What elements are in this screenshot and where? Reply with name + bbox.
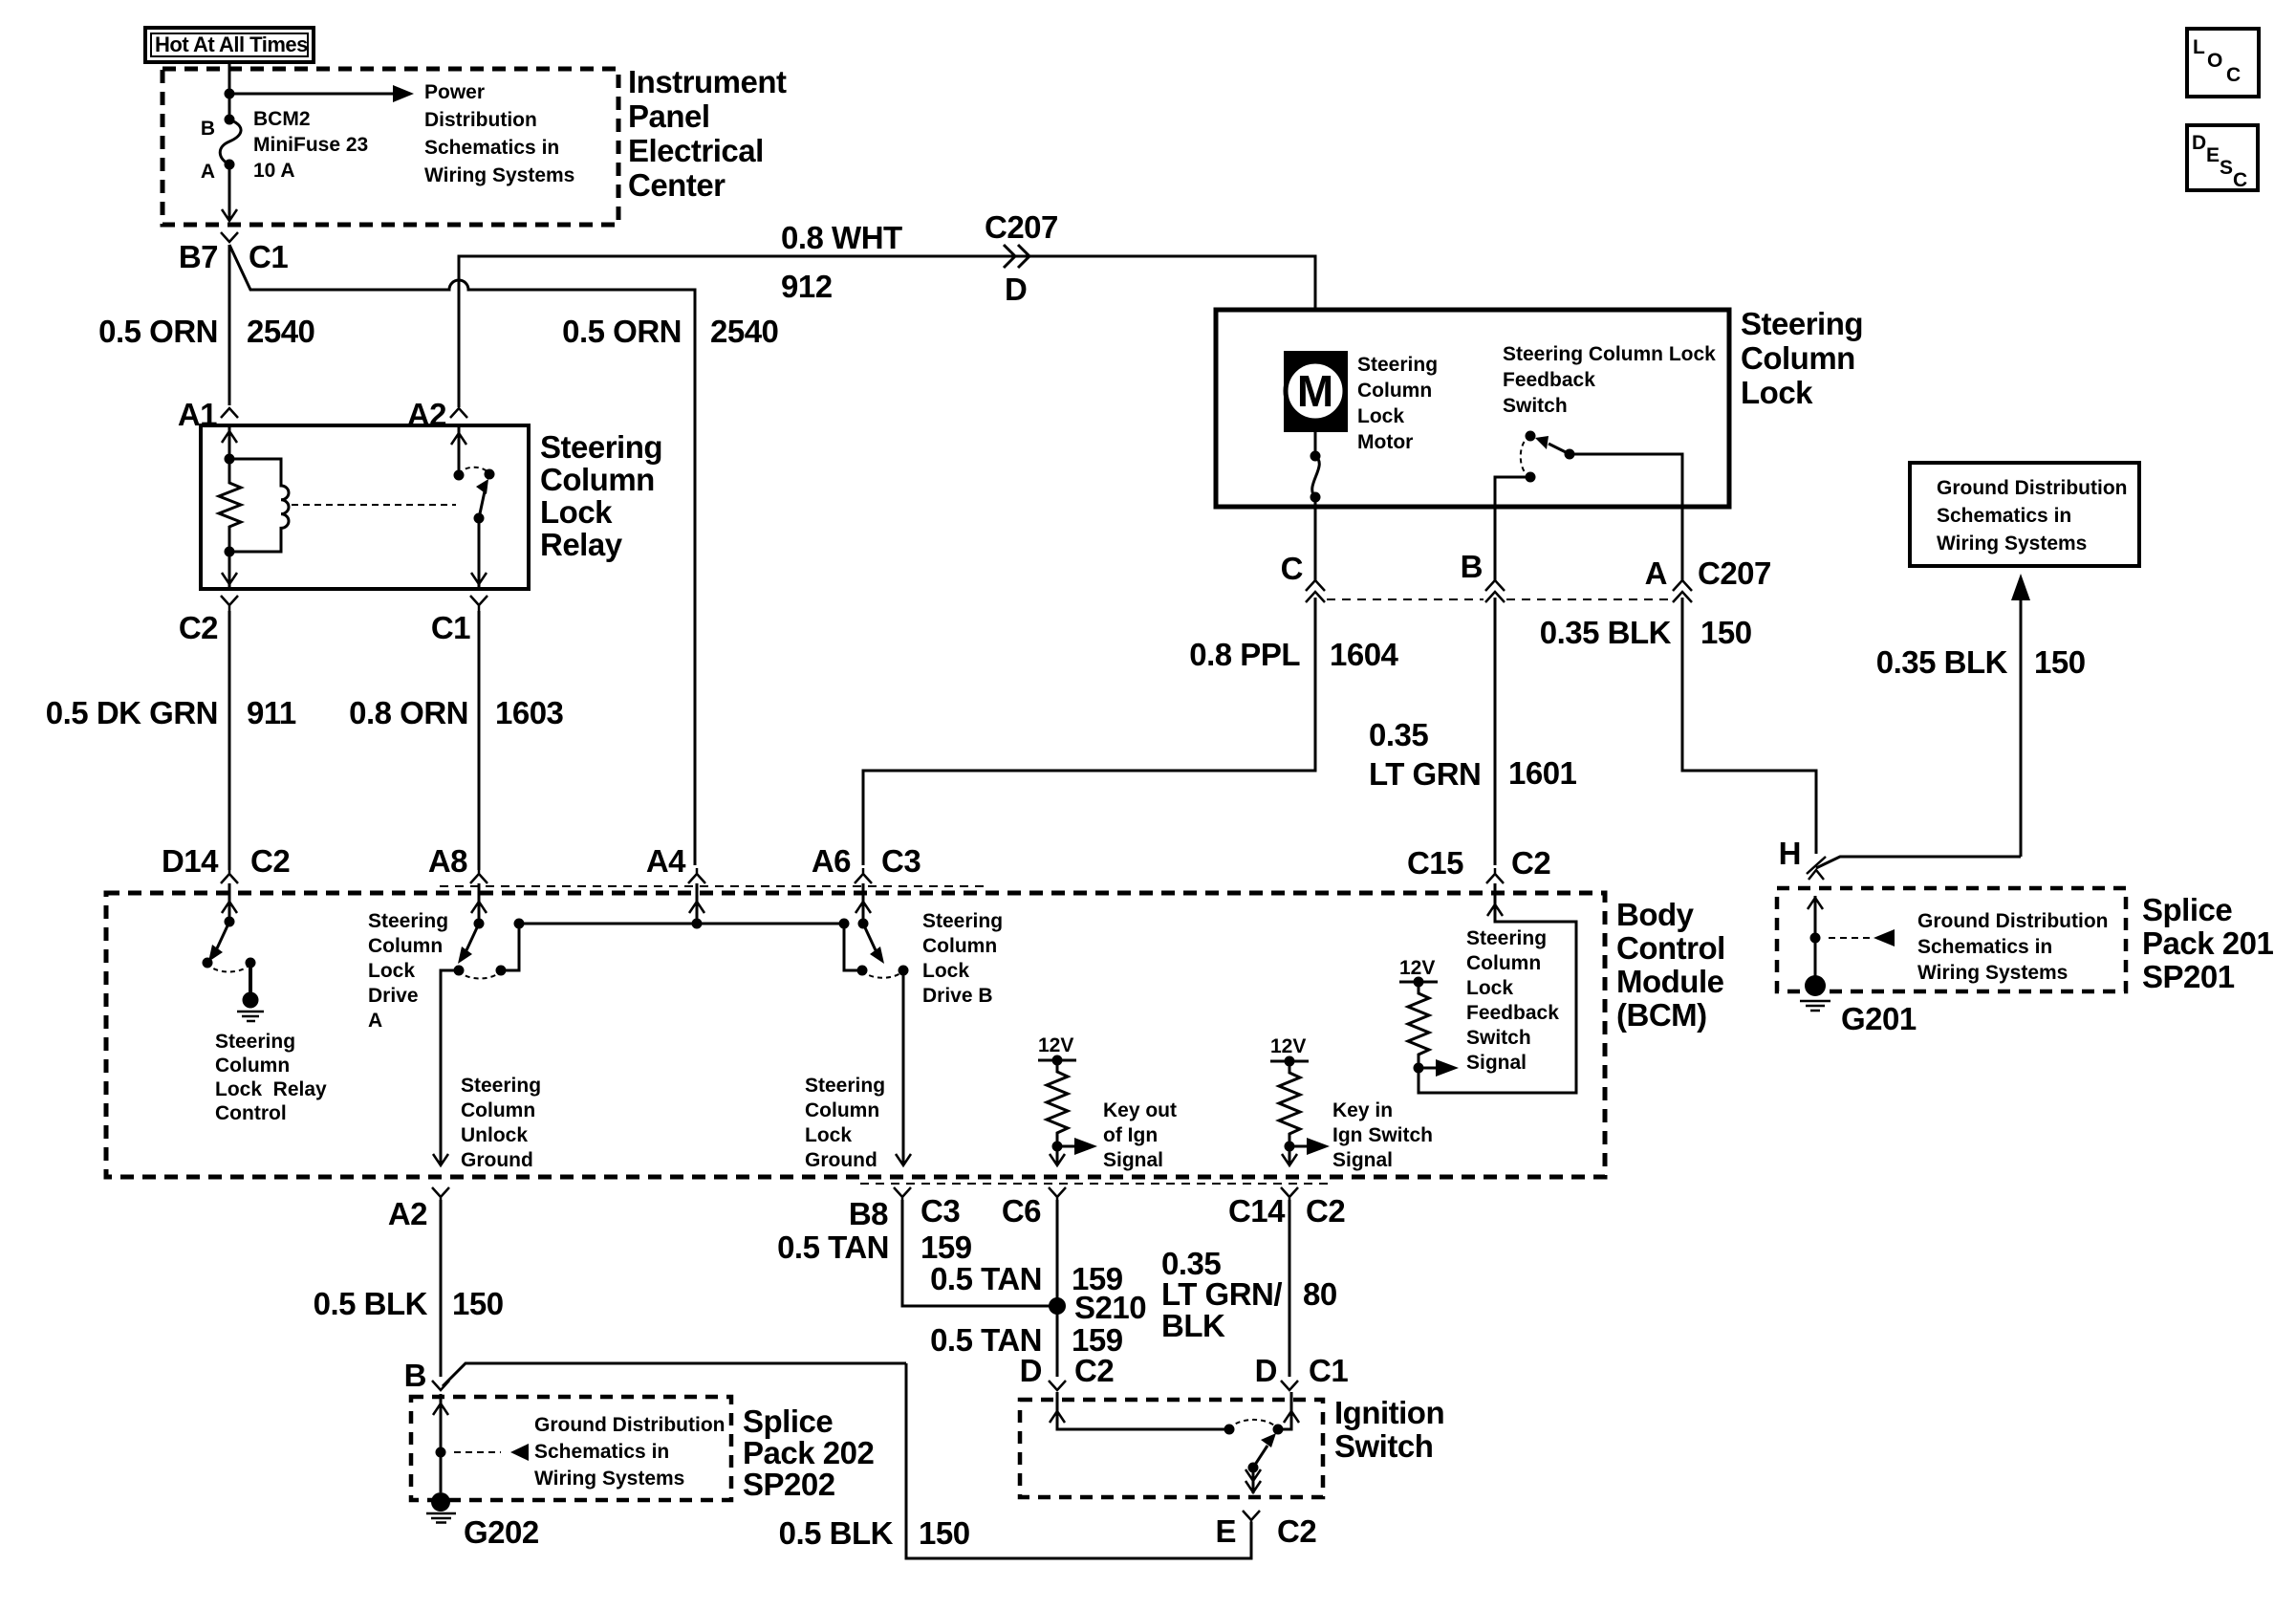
relay switch fixed contact dot bbox=[454, 470, 465, 481]
relay switch arm with arrow bbox=[476, 479, 488, 518]
svg-text:Steering: Steering bbox=[922, 910, 1003, 932]
svg-text:Lock Relay: Lock Relay bbox=[215, 1078, 327, 1100]
wire: 0.5 TAN 159 B8 to S210 bbox=[902, 1200, 1051, 1306]
svg-text:Ground Distribution: Ground Distribution bbox=[1917, 910, 2108, 932]
svg-text:Lock: Lock bbox=[1357, 405, 1404, 427]
ignition switch left contact dot bbox=[1224, 1425, 1235, 1435]
lock ground exit arrow bbox=[896, 1154, 911, 1165]
svg-text:A: A bbox=[1645, 555, 1667, 591]
svg-text:Lock: Lock bbox=[1741, 375, 1813, 410]
key out pull-up resistor bbox=[1047, 1060, 1068, 1146]
ignition switch dashed throw arc bbox=[1229, 1420, 1278, 1429]
svg-text:159: 159 bbox=[1072, 1261, 1123, 1296]
wire: hot feed vertical into fuse bbox=[228, 60, 231, 117]
svg-text:Relay: Relay bbox=[540, 527, 623, 562]
svg-text:Wiring Systems: Wiring Systems bbox=[534, 1468, 684, 1490]
svg-text:C: C bbox=[1281, 551, 1303, 586]
svg-text:Electrical: Electrical bbox=[628, 133, 764, 168]
svg-text:Ground Distribution: Ground Distribution bbox=[1937, 477, 2127, 499]
steering column lock drive B driver bbox=[839, 883, 909, 978]
node B7 junction dot bbox=[225, 89, 235, 99]
Ground Distribution reference text bbox=[534, 1414, 725, 1490]
unlock ground exit arrow bbox=[433, 1154, 448, 1165]
svg-text:Steering: Steering bbox=[1466, 927, 1547, 949]
wire: A2 into relay switch bbox=[451, 425, 466, 475]
key out signal node and arrow bbox=[1052, 1138, 1098, 1155]
svg-text:Steering: Steering bbox=[215, 1031, 295, 1053]
svg-text:80: 80 bbox=[1303, 1276, 1337, 1312]
svg-text:C6: C6 bbox=[1002, 1193, 1041, 1229]
svg-text:0.5 TAN: 0.5 TAN bbox=[777, 1229, 889, 1265]
svg-text:150: 150 bbox=[919, 1515, 970, 1551]
Steering Column Lock Drive A label bbox=[368, 910, 448, 1032]
svg-text:Pack 202: Pack 202 bbox=[743, 1435, 874, 1470]
svg-text:of Ign: of Ign bbox=[1103, 1124, 1158, 1146]
wire: 0.35 LT GRN 1601 from B to C15 bbox=[1494, 598, 1497, 865]
svg-text:L: L bbox=[2193, 36, 2205, 58]
svg-text:Power: Power bbox=[424, 81, 485, 103]
svg-text:B: B bbox=[1461, 549, 1483, 584]
wire: 0.5 BLK 150 E to splice B bbox=[906, 1363, 1251, 1558]
svg-text:C2: C2 bbox=[250, 843, 290, 879]
steering column lock feedback switch bbox=[1521, 431, 1575, 483]
pin D/C1 symbol bbox=[1281, 1381, 1298, 1390]
svg-text:0.35 BLK: 0.35 BLK bbox=[1540, 615, 1672, 650]
svg-text:Distribution: Distribution bbox=[424, 109, 537, 131]
svg-text:S: S bbox=[2220, 157, 2233, 179]
Steering Column Unlock Ground label bbox=[461, 1075, 541, 1171]
svg-text:0.5 ORN: 0.5 ORN bbox=[98, 314, 218, 349]
svg-text:Splice: Splice bbox=[743, 1403, 833, 1439]
pin A6/C3 symbol bbox=[855, 868, 872, 883]
svg-text:Switch: Switch bbox=[1334, 1428, 1433, 1464]
svg-text:Lock: Lock bbox=[540, 494, 613, 530]
fuse value label bbox=[253, 108, 368, 182]
relay switch alternate contact dot bbox=[485, 469, 495, 480]
relay switch dashed throw arc bbox=[459, 468, 489, 474]
wire: 0.5 DK GRN 911 relay C2 to BCM D14 bbox=[228, 611, 231, 870]
svg-text:150: 150 bbox=[2034, 644, 2086, 680]
relay switch pivot dot bbox=[474, 513, 485, 524]
ground G201 bbox=[1800, 975, 1830, 1011]
svg-text:1601: 1601 bbox=[1508, 755, 1577, 791]
svg-text:B: B bbox=[201, 118, 215, 140]
svg-text:C: C bbox=[2226, 64, 2241, 86]
svg-text:12V: 12V bbox=[1270, 1035, 1306, 1057]
svg-text:Lock: Lock bbox=[368, 960, 415, 982]
wire: fuse output down to B7 bbox=[222, 164, 237, 221]
svg-text:C2: C2 bbox=[1511, 845, 1550, 881]
internal ground (relay control) bbox=[237, 963, 264, 1021]
svg-text:C2: C2 bbox=[1306, 1193, 1345, 1229]
svg-text:Column: Column bbox=[805, 1099, 879, 1121]
svg-text:C2: C2 bbox=[1074, 1353, 1114, 1388]
LOC box bbox=[2187, 29, 2259, 97]
pin D14/C2 symbol bbox=[221, 868, 238, 883]
Steering Column Lock Feedback Switch label bbox=[1503, 343, 1716, 417]
svg-text:A: A bbox=[201, 161, 215, 183]
svg-text:150: 150 bbox=[452, 1286, 504, 1321]
svg-text:0.5 DK GRN: 0.5 DK GRN bbox=[46, 695, 218, 730]
svg-text:H: H bbox=[1779, 836, 1801, 871]
svg-text:Ignition: Ignition bbox=[1334, 1395, 1444, 1430]
svg-text:A2: A2 bbox=[388, 1196, 427, 1231]
svg-text:O: O bbox=[2207, 50, 2222, 72]
key in pull-up resistor bbox=[1279, 1061, 1300, 1146]
svg-text:C2: C2 bbox=[179, 610, 218, 645]
svg-text:Key in: Key in bbox=[1332, 1099, 1393, 1121]
svg-text:150: 150 bbox=[1700, 615, 1752, 650]
svg-text:Hot At All Times: Hot At All Times bbox=[155, 33, 308, 56]
svg-text:0.5 BLK: 0.5 BLK bbox=[314, 1286, 428, 1321]
svg-text:Feedback: Feedback bbox=[1466, 1002, 1559, 1024]
svg-text:Wiring Systems: Wiring Systems bbox=[424, 164, 574, 186]
svg-text:Wiring Systems: Wiring Systems bbox=[1917, 962, 2068, 984]
wire: 0.5 ORN 2540 down to A1 bbox=[228, 245, 231, 405]
DESC box bbox=[2187, 125, 2258, 191]
wire: D/C2 into switch bbox=[1050, 1392, 1229, 1429]
svg-text:Body: Body bbox=[1616, 897, 1695, 932]
Steering Column Lock Motor label bbox=[1357, 354, 1438, 453]
svg-text:Center: Center bbox=[628, 167, 726, 203]
svg-text:C1: C1 bbox=[431, 610, 470, 645]
svg-text:A8: A8 bbox=[428, 843, 467, 879]
pin A chevron C207 bbox=[1673, 580, 1692, 602]
svg-text:C14: C14 bbox=[1228, 1193, 1286, 1229]
svg-text:Column: Column bbox=[215, 1055, 290, 1077]
BCM bottom connector dashed line bbox=[860, 1183, 1329, 1185]
svg-text:Steering: Steering bbox=[461, 1075, 541, 1097]
svg-text:Schematics in: Schematics in bbox=[1917, 936, 2052, 958]
svg-text:912: 912 bbox=[781, 269, 833, 304]
svg-text:Steering: Steering bbox=[805, 1075, 885, 1097]
svg-text:Column: Column bbox=[1357, 380, 1432, 402]
svg-text:Feedback: Feedback bbox=[1503, 369, 1595, 391]
svg-text:Key out: Key out bbox=[1103, 1099, 1177, 1121]
svg-text:Signal: Signal bbox=[1103, 1149, 1163, 1171]
svg-text:Switch: Switch bbox=[1503, 395, 1568, 417]
svg-text:C1: C1 bbox=[1309, 1353, 1348, 1388]
wire: unlock ground path bbox=[441, 970, 459, 1164]
svg-text:M: M bbox=[1297, 366, 1333, 416]
wire: A2 node up and 0.8 WHT to C207 D bbox=[459, 256, 1315, 407]
wire: 0.8 ORN 1603 relay C1 to BCM A8 bbox=[478, 611, 481, 870]
relay actuation dashed link bbox=[292, 504, 456, 506]
svg-text:2540: 2540 bbox=[710, 314, 778, 349]
svg-text:Lock: Lock bbox=[922, 960, 969, 982]
wire: key in to C14 pin bbox=[1282, 1146, 1297, 1165]
wire: H into splice pack bbox=[1808, 896, 1823, 981]
Hot At All Times box bbox=[145, 28, 314, 62]
feedback pull-up resistor bbox=[1408, 982, 1429, 1068]
svg-text:A: A bbox=[368, 1010, 382, 1032]
dashed reference arrow left bbox=[1829, 929, 1895, 946]
svg-text:B8: B8 bbox=[849, 1196, 888, 1231]
svg-text:Column: Column bbox=[540, 462, 655, 497]
pin D/C2 symbol bbox=[1049, 1381, 1066, 1390]
key in ign switch pull-up 12V source bbox=[1270, 1035, 1309, 1067]
BCM top connector dashed line bbox=[440, 885, 985, 887]
svg-text:Column: Column bbox=[368, 935, 443, 957]
wire: C15 sense path bbox=[1419, 883, 1576, 1093]
wire: A1 into relay coil bbox=[222, 425, 237, 459]
svg-text:(BCM): (BCM) bbox=[1616, 997, 1707, 1033]
svg-text:0.35 BLK: 0.35 BLK bbox=[1876, 644, 2008, 680]
Instrument Panel Electrical Center dashed box bbox=[162, 69, 618, 225]
Body Control Module label bbox=[1616, 897, 1725, 1033]
wire: 0.5 BLK 150 from A2 to splice B bbox=[440, 1200, 443, 1377]
svg-text:0.5 ORN: 0.5 ORN bbox=[562, 314, 682, 349]
svg-text:Wiring Systems: Wiring Systems bbox=[1937, 533, 2087, 555]
Steering Column Lock Feedback Switch Signal label bbox=[1466, 927, 1559, 1074]
Steering Column Lock Relay label bbox=[540, 429, 662, 562]
Splice Pack 201 label bbox=[2142, 892, 2273, 994]
svg-text:MiniFuse 23: MiniFuse 23 bbox=[253, 134, 368, 156]
svg-text:Switch: Switch bbox=[1466, 1027, 1531, 1049]
feedback switch signal 12V source bbox=[1399, 957, 1438, 988]
svg-text:Schematics in: Schematics in bbox=[424, 137, 559, 159]
ignition switch right contact dot bbox=[1273, 1425, 1284, 1435]
svg-text:D: D bbox=[1255, 1353, 1277, 1388]
wire: right contact to D/C1 bbox=[1278, 1392, 1299, 1429]
svg-text:Column: Column bbox=[1741, 340, 1855, 376]
svg-text:C: C bbox=[2233, 169, 2247, 191]
wire: lock ground path bbox=[902, 970, 905, 1164]
svg-text:E: E bbox=[1215, 1513, 1236, 1549]
svg-text:Signal: Signal bbox=[1332, 1149, 1393, 1171]
wire: B into splice pack bbox=[433, 1394, 448, 1492]
splice node dot bbox=[436, 1447, 446, 1458]
svg-text:Steering: Steering bbox=[1741, 306, 1863, 341]
svg-text:Column: Column bbox=[461, 1099, 535, 1121]
svg-text:1604: 1604 bbox=[1330, 637, 1399, 672]
Instrument Panel Electrical Center label bbox=[628, 64, 787, 203]
relay coil element bbox=[229, 459, 289, 552]
Power Distribution reference text bbox=[424, 81, 574, 186]
svg-text:Drive B: Drive B bbox=[922, 985, 993, 1007]
pin C chevron C207 bbox=[1306, 580, 1325, 602]
wire: ground distribution arrow bbox=[2011, 574, 2030, 857]
connector H break symbol bbox=[1807, 857, 1826, 880]
svg-text:159: 159 bbox=[921, 1229, 972, 1265]
relay K box bbox=[201, 425, 529, 589]
svg-text:Control: Control bbox=[215, 1102, 287, 1124]
svg-text:C207: C207 bbox=[1698, 555, 1771, 591]
wire: B7 branch to A4 riser bbox=[229, 245, 695, 865]
ignition switch arm with arrow bbox=[1253, 1433, 1276, 1468]
steering column lock motor M1 bbox=[1284, 351, 1348, 432]
pin C1 chevron bbox=[470, 596, 487, 611]
steering column lock relay control driver bbox=[203, 883, 256, 972]
svg-text:0.5 BLK: 0.5 BLK bbox=[779, 1515, 894, 1551]
pin C2 chevron bbox=[221, 596, 238, 611]
steering column lock drive A driver bbox=[454, 883, 525, 979]
wire label 0.35 LT GRN bbox=[1369, 717, 1481, 792]
wire: feedback switch lower contact to B bbox=[1495, 477, 1530, 507]
wire: arrow to Power Distribution reference bbox=[229, 85, 414, 102]
wire: pivot to E pin bbox=[1245, 1468, 1261, 1493]
svg-text:Pack 201: Pack 201 bbox=[2142, 925, 2273, 961]
ignition switch dashed box bbox=[1020, 1400, 1323, 1497]
svg-text:Unlock: Unlock bbox=[461, 1124, 528, 1146]
svg-text:G201: G201 bbox=[1841, 1001, 1917, 1036]
pin C15/C2 symbol bbox=[1486, 868, 1504, 883]
svg-text:Control: Control bbox=[1616, 930, 1725, 966]
Key in Ign Switch Signal label bbox=[1332, 1099, 1433, 1171]
svg-text:C207: C207 bbox=[985, 209, 1058, 245]
svg-text:LT GRN/: LT GRN/ bbox=[1161, 1276, 1282, 1312]
svg-text:Splice: Splice bbox=[2142, 892, 2232, 927]
svg-text:Ign Switch: Ign Switch bbox=[1332, 1124, 1433, 1146]
relay resistor element bbox=[219, 459, 241, 552]
Steering Column Lock Drive B label bbox=[922, 910, 1003, 1007]
svg-text:911: 911 bbox=[247, 695, 296, 730]
Ignition Switch label bbox=[1334, 1395, 1444, 1464]
splice pack 202 dashed box bbox=[411, 1397, 731, 1500]
wire: feedback switch common to A bbox=[1570, 454, 1682, 507]
svg-text:0.8 WHT: 0.8 WHT bbox=[781, 220, 902, 255]
connector C207 dashed line bbox=[1327, 598, 1671, 600]
wire: coil to C2 pin bbox=[222, 552, 237, 589]
fuse BCM2 MiniFuse 23 bbox=[220, 115, 241, 170]
pin A2 symbol bbox=[432, 1187, 449, 1200]
motor lower lead with connector curve bbox=[1310, 432, 1321, 507]
svg-text:Column: Column bbox=[922, 935, 997, 957]
svg-text:Schematics in: Schematics in bbox=[1937, 505, 2071, 527]
pin E/C2 symbol bbox=[1243, 1511, 1260, 1522]
splice S210 bbox=[1049, 1297, 1066, 1315]
svg-text:Lock: Lock bbox=[805, 1124, 852, 1146]
svg-text:SP201: SP201 bbox=[2142, 959, 2235, 994]
svg-text:Steering: Steering bbox=[1357, 354, 1438, 376]
splice pack 201 dashed box bbox=[1777, 888, 2126, 991]
steering column lock box bbox=[1216, 310, 1729, 507]
svg-text:Steering: Steering bbox=[540, 429, 662, 465]
svg-text:Panel: Panel bbox=[628, 98, 710, 134]
svg-text:12V: 12V bbox=[1399, 957, 1435, 979]
svg-text:Ground Distribution: Ground Distribution bbox=[534, 1414, 725, 1436]
Steering Column Lock Relay Control label bbox=[215, 1031, 327, 1124]
Ground Distribution reference box bbox=[1910, 463, 2139, 566]
svg-text:10 A: 10 A bbox=[253, 160, 295, 182]
wire: 0.5 TAN 159 C6 to ignition D bbox=[1056, 1200, 1059, 1377]
svg-text:D: D bbox=[1020, 1353, 1042, 1388]
wire: H to ground distribution riser bbox=[1816, 857, 2021, 868]
svg-text:A6: A6 bbox=[812, 843, 851, 879]
wire: switch to C1 pin bbox=[471, 518, 487, 589]
svg-text:12V: 12V bbox=[1038, 1034, 1073, 1056]
ignition switch pivot dot bbox=[1248, 1463, 1259, 1473]
svg-text:E: E bbox=[2206, 144, 2220, 166]
wire: key out to C6 pin bbox=[1050, 1146, 1065, 1165]
pin A2 chevron bbox=[450, 408, 467, 418]
pin C6 symbol bbox=[1049, 1187, 1066, 1200]
ground G202 bbox=[426, 1492, 456, 1523]
svg-text:Signal: Signal bbox=[1466, 1052, 1527, 1074]
svg-text:C3: C3 bbox=[881, 843, 921, 879]
wire: C pin stubs bbox=[1315, 507, 1682, 580]
svg-text:Module: Module bbox=[1616, 964, 1724, 999]
Splice Pack 202 label bbox=[743, 1403, 874, 1502]
svg-text:C2: C2 bbox=[1277, 1513, 1316, 1549]
svg-text:D14: D14 bbox=[162, 843, 219, 879]
svg-text:Steering Column Lock: Steering Column Lock bbox=[1503, 343, 1716, 365]
pin B chevron C207 bbox=[1485, 580, 1505, 602]
svg-text:A4: A4 bbox=[646, 843, 686, 879]
svg-text:0.8 ORN: 0.8 ORN bbox=[349, 695, 468, 730]
wire: 0.35 LT GRN/BLK 80 C14 to ignition D bbox=[1289, 1200, 1291, 1377]
wire: ignition ground feed into splice B bbox=[443, 1363, 906, 1386]
wire: 0.35 BLK 150 from A to H bbox=[1682, 598, 1816, 854]
relay coil node dots bbox=[225, 454, 235, 557]
pin A1 chevron bbox=[221, 408, 238, 418]
svg-text:Instrument: Instrument bbox=[628, 64, 787, 99]
Steering Column Lock label bbox=[1741, 306, 1863, 410]
svg-text:C1: C1 bbox=[249, 239, 288, 274]
Ground Distribution reference text bbox=[1917, 910, 2108, 984]
svg-text:B: B bbox=[404, 1358, 426, 1393]
Steering Column Lock Ground label bbox=[805, 1075, 885, 1171]
svg-text:2540: 2540 bbox=[247, 314, 314, 349]
feedback signal node and arrow bbox=[1414, 1059, 1460, 1077]
Key out of Ign Signal label bbox=[1103, 1099, 1177, 1171]
svg-text:Schematics in: Schematics in bbox=[534, 1441, 669, 1463]
svg-text:B7: B7 bbox=[179, 239, 218, 274]
svg-text:Column: Column bbox=[1466, 952, 1541, 974]
pin A4 symbol bbox=[688, 868, 705, 883]
pin C14/C2 symbol bbox=[1281, 1187, 1298, 1200]
dashed reference arrow left bbox=[454, 1444, 529, 1461]
svg-text:D: D bbox=[2192, 132, 2206, 154]
svg-text:0.5 TAN: 0.5 TAN bbox=[930, 1261, 1042, 1296]
wire: A4 drive feed line bbox=[519, 883, 844, 929]
svg-text:Drive: Drive bbox=[368, 985, 419, 1007]
pin A8 symbol bbox=[470, 868, 487, 883]
svg-text:Steering: Steering bbox=[368, 910, 448, 932]
svg-text:Ground: Ground bbox=[461, 1149, 533, 1171]
svg-text:1603: 1603 bbox=[495, 695, 564, 730]
svg-text:D: D bbox=[1005, 272, 1027, 307]
connector C207 double chevron bbox=[1004, 245, 1029, 268]
connector B7/C1 break symbol bbox=[221, 232, 238, 242]
splice node dot bbox=[1810, 933, 1821, 944]
key out of ign pull-up 12V source bbox=[1038, 1034, 1076, 1066]
svg-text:BCM2: BCM2 bbox=[253, 108, 311, 130]
connector B break symbol bbox=[432, 1381, 449, 1390]
svg-text:Motor: Motor bbox=[1357, 431, 1413, 453]
wire label 0.35 LT GRN/ BLK bbox=[1161, 1246, 1282, 1343]
key in signal node and arrow bbox=[1285, 1138, 1331, 1155]
svg-text:LT GRN: LT GRN bbox=[1369, 756, 1481, 792]
svg-text:0.8 PPL: 0.8 PPL bbox=[1189, 637, 1300, 672]
svg-text:BLK: BLK bbox=[1161, 1308, 1225, 1343]
svg-text:G202: G202 bbox=[464, 1514, 539, 1550]
svg-text:Lock: Lock bbox=[1466, 977, 1513, 999]
svg-text:Ground: Ground bbox=[805, 1149, 877, 1171]
svg-text:0.35: 0.35 bbox=[1369, 717, 1428, 752]
BCM dashed box bbox=[106, 893, 1605, 1177]
svg-text:C3: C3 bbox=[921, 1193, 960, 1229]
wire: 0.8 PPL 1604 from C to A6 bbox=[863, 598, 1315, 865]
pin B8/C3 symbol bbox=[894, 1187, 911, 1200]
svg-text:SP202: SP202 bbox=[743, 1467, 835, 1502]
svg-text:C15: C15 bbox=[1407, 845, 1463, 881]
